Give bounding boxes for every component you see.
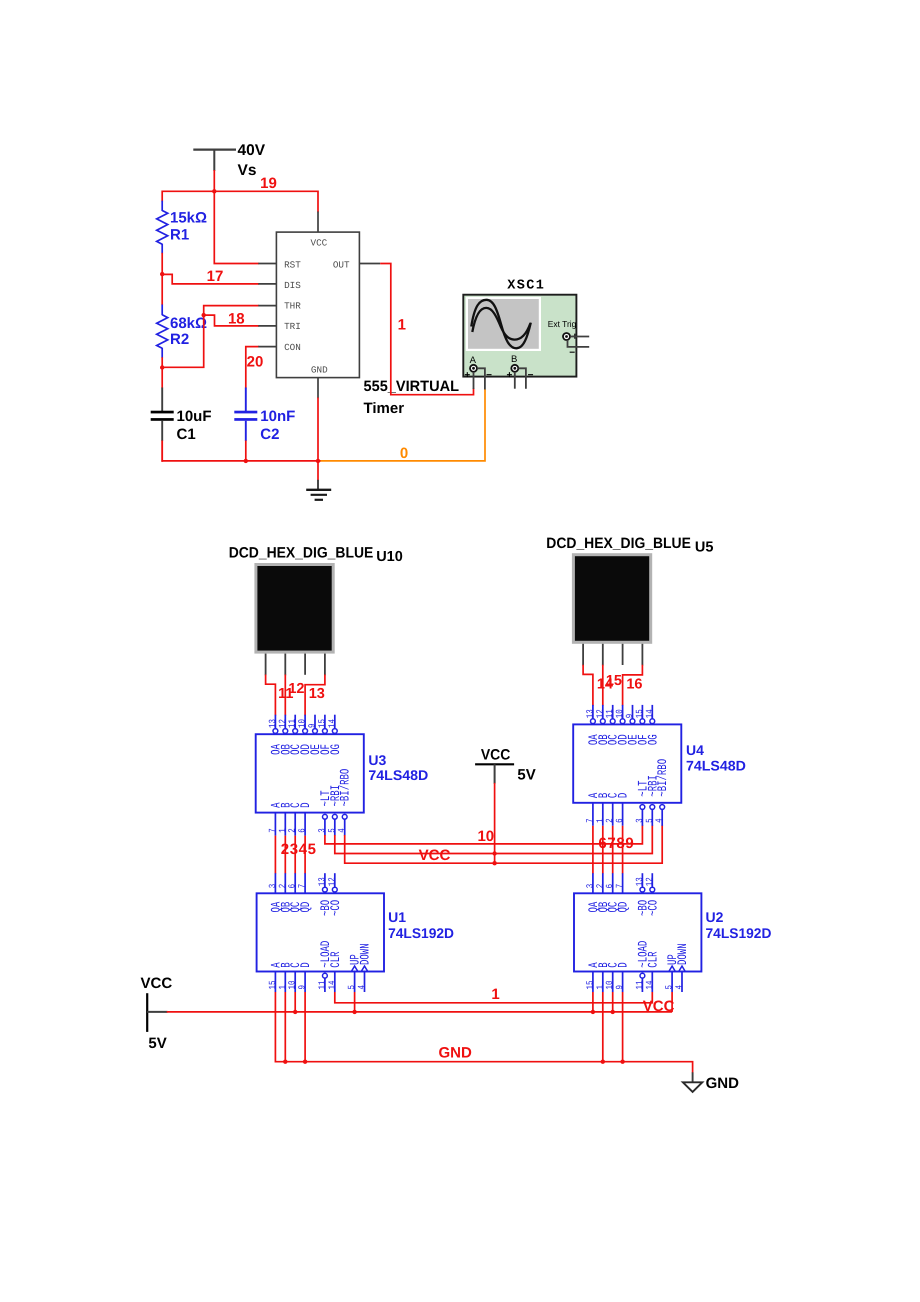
U4 bottom pin 4 ~BI/RBO xyxy=(660,805,665,810)
svg-text:9: 9 xyxy=(297,985,308,990)
svg-text:Timer: Timer xyxy=(364,400,405,417)
wire U2 A to VCC rail xyxy=(592,992,594,1012)
U4 bottom pin 2 C xyxy=(612,803,614,826)
svg-text:10: 10 xyxy=(477,828,494,845)
svg-text:19: 19 xyxy=(260,175,277,192)
svg-text:3: 3 xyxy=(585,883,596,888)
U3 top pin 10 OD xyxy=(304,715,306,729)
svg-text:DOWN: DOWN xyxy=(358,943,373,965)
U1 bottom pin 1 B xyxy=(284,972,286,993)
wire net 1 clock line (U1 CLR to U2 CLR) xyxy=(335,992,653,1003)
svg-text:10: 10 xyxy=(605,980,616,990)
svg-text:13: 13 xyxy=(634,877,645,887)
junction node on net 19 xyxy=(212,189,216,193)
U2 bottom pin 1 B xyxy=(602,972,604,993)
wire net 14 (U5 pin1 to U4 OA) xyxy=(583,665,593,706)
svg-text:12: 12 xyxy=(644,877,655,886)
U4 bottom pin 7 A xyxy=(592,803,594,826)
svg-text:6: 6 xyxy=(598,835,606,852)
svg-text:2: 2 xyxy=(281,841,289,858)
junction node VCC/~RBI line xyxy=(492,851,496,855)
svg-text:0: 0 xyxy=(400,445,408,462)
svg-text:4: 4 xyxy=(338,828,348,833)
svg-text:11: 11 xyxy=(318,980,328,990)
wire bottom rail (GND net) xyxy=(161,460,163,462)
555 pin stub DIS xyxy=(258,283,276,285)
svg-text:3: 3 xyxy=(290,841,298,858)
junction node U2 C on VCC rail xyxy=(611,1010,615,1014)
IC U1 74LS192D box xyxy=(257,893,384,971)
U1 bottom pin 9 D xyxy=(304,972,306,993)
wire net 2 (U3 A to U1 QA) xyxy=(274,836,276,874)
U4 bottom pin 1 B xyxy=(602,803,604,826)
scope sine waveform 1 xyxy=(471,300,531,349)
svg-text:11: 11 xyxy=(636,980,646,990)
wire U1 C to VCC rail xyxy=(294,992,296,1012)
display U10 pin 4 xyxy=(324,654,326,676)
svg-text:~BI/RBO: ~BI/RBO xyxy=(339,769,354,807)
capacitor C2 10nF xyxy=(245,388,247,412)
svg-text:−: − xyxy=(528,370,534,381)
display U5 pin 3 (unconnected) xyxy=(622,644,624,665)
ground symbol (555) xyxy=(317,480,319,490)
junction node U1 B on GND rail xyxy=(283,1060,287,1064)
svg-text:−: − xyxy=(569,348,575,359)
wire net ~BI/RBO line (U3 pin4 to U4 pin4) xyxy=(345,825,663,863)
svg-text:14: 14 xyxy=(328,718,338,728)
IC U4 74LS48D box xyxy=(573,724,681,802)
svg-text:3: 3 xyxy=(317,828,328,833)
scope channel A stubs xyxy=(473,372,475,389)
svg-text:8: 8 xyxy=(616,835,624,852)
svg-text:6: 6 xyxy=(605,883,616,888)
U3 bottom pin 5 ~RBI xyxy=(332,814,337,819)
op-amp-style 555 timer U (555_VIRTUAL) xyxy=(276,232,359,378)
IC U3 74LS48D box xyxy=(256,734,364,812)
svg-text:7: 7 xyxy=(298,884,308,889)
svg-text:6: 6 xyxy=(615,818,626,823)
svg-text:U10: U10 xyxy=(376,549,403,565)
svg-text:~CO: ~CO xyxy=(329,900,344,916)
U3 bottom pin 7 A xyxy=(274,813,276,836)
U4 top pin 10 OD xyxy=(622,705,624,719)
svg-text:C2: C2 xyxy=(260,426,279,443)
svg-text:7: 7 xyxy=(269,828,279,833)
display U5 pin 1 xyxy=(582,644,584,666)
junction node U2 B on GND rail xyxy=(601,1060,605,1064)
U3 top pin 13 OA xyxy=(274,715,276,729)
svg-text:CON: CON xyxy=(284,342,301,353)
U3 bottom pin 1 B xyxy=(284,813,286,836)
svg-text:5V: 5V xyxy=(148,1035,166,1052)
wire GND rail (bottom) xyxy=(275,992,692,1073)
scope channel B stubs xyxy=(514,372,516,389)
svg-text:17: 17 xyxy=(207,268,224,285)
junction node VCC/~BI line xyxy=(492,861,496,865)
wire U2 D to GND rail xyxy=(622,992,624,1062)
wire R1 bottom to node xyxy=(161,253,163,275)
555 pin stub RST xyxy=(258,263,276,265)
svg-text:VCC: VCC xyxy=(311,238,328,249)
svg-text:1: 1 xyxy=(596,818,606,823)
wire U1 B to GND rail xyxy=(284,992,286,1062)
svg-text:3: 3 xyxy=(267,883,278,888)
svg-text:D: D xyxy=(616,793,631,798)
svg-text:555_VIRTUAL: 555_VIRTUAL xyxy=(364,378,460,395)
svg-text:18: 18 xyxy=(228,311,245,328)
wire U2 B to GND rail xyxy=(602,992,604,1062)
svg-text:1: 1 xyxy=(491,986,499,1003)
svg-text:1: 1 xyxy=(596,985,606,990)
svg-text:+: + xyxy=(506,370,512,381)
svg-text:15: 15 xyxy=(636,709,646,719)
U1 top pin 2 QB xyxy=(284,873,286,893)
U4 top pin 12 OB xyxy=(602,705,604,719)
wire net 6 (U4 A to U2 QA) xyxy=(592,826,594,874)
svg-text:RST: RST xyxy=(284,260,301,271)
svg-text:U2: U2 xyxy=(706,909,724,925)
junction node U1 C on VCC rail xyxy=(293,1010,297,1014)
U2 bottom pin 5 UP (clock) xyxy=(669,966,676,971)
svg-text:15: 15 xyxy=(269,980,279,990)
wire net 18 (THR/TRI to R2 bottom) xyxy=(162,306,259,368)
U2 top pin 3 QA xyxy=(592,873,594,893)
junction node on net 18 xyxy=(202,313,206,317)
svg-text:5: 5 xyxy=(308,841,316,858)
U4 bottom pin 3 ~LT xyxy=(640,805,645,810)
svg-text:4: 4 xyxy=(299,841,308,858)
svg-text:2: 2 xyxy=(287,828,298,833)
svg-text:5: 5 xyxy=(348,985,358,990)
svg-text:13: 13 xyxy=(309,686,325,702)
svg-text:15: 15 xyxy=(586,980,596,990)
svg-text:B: B xyxy=(511,354,517,365)
svg-text:15kΩ: 15kΩ xyxy=(170,210,207,227)
display U10 pin 2 xyxy=(284,654,286,676)
U1 top pin 13 ~BO xyxy=(324,873,326,887)
svg-text:OG: OG xyxy=(329,744,344,755)
U3 bottom pin 3 ~LT xyxy=(323,814,328,819)
svg-text:1: 1 xyxy=(279,985,289,990)
svg-text:D: D xyxy=(299,802,314,807)
svg-text:2: 2 xyxy=(605,818,616,823)
U2 top pin 13 ~BO xyxy=(641,873,643,887)
svg-text:14: 14 xyxy=(328,980,338,990)
svg-text:11: 11 xyxy=(606,709,616,719)
svg-text:GND: GND xyxy=(706,1075,740,1092)
wire U1 UP to VCC rail xyxy=(354,992,356,1012)
svg-text:10nF: 10nF xyxy=(260,408,295,425)
wire net 4 (U3 C to U1 QC) xyxy=(294,836,296,874)
U2 bottom pin 14 CLR xyxy=(651,972,653,993)
svg-text:12: 12 xyxy=(595,709,606,718)
svg-text:1: 1 xyxy=(279,828,289,833)
svg-text:QD: QD xyxy=(299,902,314,913)
svg-text:7: 7 xyxy=(586,818,596,823)
wire net 20 (CON to C2) xyxy=(246,347,259,389)
svg-text:16: 16 xyxy=(626,676,642,692)
U1 top pin 7 QD xyxy=(304,873,306,893)
svg-text:DOWN: DOWN xyxy=(676,943,691,965)
junction node R2 bottom xyxy=(160,365,164,369)
svg-text:2: 2 xyxy=(595,884,606,889)
wire net 17 (node to DIS) xyxy=(162,274,259,284)
svg-text:OUT: OUT xyxy=(333,260,350,271)
svg-text:VCC: VCC xyxy=(419,847,451,864)
svg-text:~CO: ~CO xyxy=(646,900,661,916)
svg-text:68kΩ: 68kΩ xyxy=(170,315,207,332)
svg-text:~BI/RBO: ~BI/RBO xyxy=(656,759,671,797)
svg-text:12: 12 xyxy=(277,719,288,728)
U3 bottom pin 6 D xyxy=(304,813,306,836)
wire net 19 (Vs to 555 VCC) xyxy=(213,170,215,192)
555 pin stub CON xyxy=(258,346,276,348)
svg-text:CLR: CLR xyxy=(646,951,661,968)
U2 top pin 2 QB xyxy=(602,873,604,893)
wire VCC rail (bottom) xyxy=(167,1011,672,1013)
wire U2 C to VCC rail xyxy=(612,992,614,1012)
svg-text:13: 13 xyxy=(317,877,328,887)
U2 top pin 6 QC xyxy=(612,873,614,893)
svg-text:14: 14 xyxy=(646,980,656,990)
U2 bottom pin 15 A xyxy=(592,972,594,993)
svg-text:4: 4 xyxy=(358,985,368,990)
scope Ext Trig stubs xyxy=(570,336,589,338)
svg-text:12: 12 xyxy=(327,877,338,886)
display U10 pin 3 (unconnected) xyxy=(304,654,306,675)
svg-text:VCC: VCC xyxy=(141,975,173,992)
svg-text:DIS: DIS xyxy=(284,280,301,291)
wire net ~RBI line (U3 pin5 to U4 pin5) xyxy=(335,825,653,853)
U4 top pin 9 OE xyxy=(632,705,634,719)
ground symbol GND (bottom right) xyxy=(692,1072,694,1082)
scope channel A terminal xyxy=(470,365,477,372)
U1 bottom pin 10 C xyxy=(294,972,296,993)
svg-text:GND: GND xyxy=(439,1044,473,1061)
svg-text:74LS48D: 74LS48D xyxy=(368,767,428,783)
display U5 pin 4 xyxy=(641,644,643,666)
svg-text:D: D xyxy=(616,962,631,967)
U2 bottom pin 9 D xyxy=(622,972,624,993)
svg-text:10: 10 xyxy=(615,709,626,719)
U1 top pin 6 QC xyxy=(294,873,296,893)
svg-text:7: 7 xyxy=(607,835,615,852)
svg-text:QD: QD xyxy=(616,902,631,913)
555 pin stub OUT xyxy=(359,263,380,265)
svg-text:10: 10 xyxy=(287,980,298,990)
svg-text:74LS192D: 74LS192D xyxy=(706,925,772,941)
555 pin stub THR xyxy=(258,305,276,307)
wire net 3 (U3 B to U1 QB) xyxy=(284,836,286,874)
svg-text:5V: 5V xyxy=(517,767,535,784)
junction node U1 D on GND rail xyxy=(303,1060,307,1064)
wire U1 D to GND rail xyxy=(304,992,306,1062)
U2 top pin 7 QD xyxy=(622,873,624,893)
U1 top pin 12 ~CO xyxy=(334,873,336,887)
wire net 7 (U4 B to U2 QB) xyxy=(602,826,604,874)
U2 top pin 12 ~CO xyxy=(651,873,653,887)
wire net 11 (U10 pin1 to U3 OA) xyxy=(266,675,276,716)
wire net 12 (U10 pin2 to U3 OB) xyxy=(284,675,286,716)
wire RST to net 19 xyxy=(214,191,259,263)
svg-text:4: 4 xyxy=(675,985,685,990)
svg-text:13: 13 xyxy=(585,709,596,719)
svg-text:C1: C1 xyxy=(177,426,196,443)
svg-text:9: 9 xyxy=(625,714,636,719)
svg-text:6: 6 xyxy=(297,828,308,833)
IC U2 74LS192D box xyxy=(574,893,701,971)
scope Ext Trig terminal xyxy=(563,333,570,340)
wire net 10 (VCC to lines) xyxy=(494,783,496,863)
U1 bottom pin 4 DOWN (clock) xyxy=(361,966,368,971)
svg-text:10uF: 10uF xyxy=(177,408,212,425)
svg-text:11: 11 xyxy=(288,718,298,728)
wire 555 GND pin to rail and ground xyxy=(317,398,319,462)
svg-text:5: 5 xyxy=(646,818,656,823)
svg-text:9: 9 xyxy=(625,835,633,852)
svg-text:10: 10 xyxy=(297,718,308,728)
scope channel B terminal xyxy=(511,365,518,372)
U3 top pin 14 OG xyxy=(334,715,336,729)
wire net 13 (U10 pin4 to U3 OD) xyxy=(305,675,325,716)
wire net 1 (OUT to scope A+) xyxy=(380,264,473,395)
U3 top pin 12 OB xyxy=(284,715,286,729)
svg-text:15: 15 xyxy=(318,718,328,728)
wire net ~LT line (U3 pin3 to U4 pin3) xyxy=(325,825,643,844)
wire net 16 (U5 pin4 to U4 OD) xyxy=(623,665,643,706)
U1 bottom pin 14 CLR xyxy=(334,972,336,993)
svg-text:20: 20 xyxy=(247,354,264,371)
svg-text:OG: OG xyxy=(646,734,661,745)
junction node U2 A on VCC rail xyxy=(591,1010,595,1014)
U1 bottom pin 15 A xyxy=(274,972,276,993)
junction node C2 on rail xyxy=(244,459,248,463)
svg-text:1: 1 xyxy=(398,316,406,333)
svg-text:Ext Trig: Ext Trig xyxy=(548,319,577,329)
junction node R1/R2/net17 xyxy=(160,272,164,276)
svg-text:+: + xyxy=(464,370,470,381)
svg-text:D: D xyxy=(299,962,314,967)
svg-text:U4: U4 xyxy=(686,742,704,758)
U3 bottom pin 4 ~BI/RBO xyxy=(342,814,347,819)
svg-text:9: 9 xyxy=(615,985,626,990)
wire net 15 (U5 pin2 to U4 OB) xyxy=(602,665,604,706)
555 pin stub TRI xyxy=(258,325,276,327)
svg-text:XSC1: XSC1 xyxy=(507,279,545,294)
svg-text:THR: THR xyxy=(284,301,301,312)
svg-text:2: 2 xyxy=(277,884,288,889)
U4 top pin 15 OF xyxy=(641,705,643,719)
scope screen xyxy=(467,298,540,350)
U4 bottom pin 6 D xyxy=(622,803,624,826)
U4 top pin 13 OA xyxy=(592,705,594,719)
svg-text:CLR: CLR xyxy=(329,951,344,968)
555 pin stub GND xyxy=(317,378,319,399)
svg-text:Vs: Vs xyxy=(238,162,257,179)
wire net 5 (U3 D to U1 QD) xyxy=(304,836,306,874)
svg-text:6: 6 xyxy=(287,883,298,888)
U4 top pin 14 OG xyxy=(651,705,653,719)
wire net 9 (U4 D to U2 QD) xyxy=(622,826,624,874)
U2 bottom pin 4 DOWN (clock) xyxy=(679,966,686,971)
junction node 555 GND on rail xyxy=(316,459,320,463)
wire net 8 (U4 C to U2 QC) xyxy=(612,826,614,874)
svg-text:VCC: VCC xyxy=(481,747,511,764)
svg-text:TRI: TRI xyxy=(284,321,301,332)
svg-text:4: 4 xyxy=(655,818,665,823)
wire net 0 (rail to scope A-) xyxy=(321,389,486,461)
U3 bottom pin 2 C xyxy=(294,813,296,836)
svg-text:DCD_HEX_DIG_BLUE: DCD_HEX_DIG_BLUE xyxy=(546,535,691,552)
U1 top pin 3 QA xyxy=(274,873,276,893)
svg-text:R2: R2 xyxy=(170,331,189,348)
svg-text:5: 5 xyxy=(328,828,338,833)
svg-text:VCC: VCC xyxy=(643,998,675,1015)
svg-text:U5: U5 xyxy=(695,539,714,555)
svg-text:5: 5 xyxy=(665,985,675,990)
resistor R2 68kOhm xyxy=(161,274,163,306)
capacitor C1 10uF xyxy=(161,367,163,389)
svg-text:7: 7 xyxy=(616,884,626,889)
svg-text:3: 3 xyxy=(634,818,645,823)
svg-text:40V: 40V xyxy=(238,142,266,159)
svg-text:15: 15 xyxy=(606,673,622,689)
svg-text:9: 9 xyxy=(307,723,318,728)
svg-text:74LS192D: 74LS192D xyxy=(388,925,454,941)
U4 top pin 11 OC xyxy=(612,705,614,719)
U3 top pin 9 OE xyxy=(314,715,316,729)
U2 bottom pin 11 ~LOAD xyxy=(640,973,645,978)
U2 bottom pin 10 C xyxy=(612,972,614,993)
U4 bottom pin 5 ~RBI xyxy=(650,805,655,810)
scope sine waveform 2 xyxy=(472,308,530,340)
svg-text:12: 12 xyxy=(288,681,304,697)
svg-text:14: 14 xyxy=(646,709,656,719)
555 pin stub VCC xyxy=(317,212,319,233)
svg-text:GND: GND xyxy=(311,364,328,375)
svg-text:−: − xyxy=(486,370,492,381)
resistor R1 15kOhm xyxy=(161,201,163,211)
U1 bottom pin 5 UP (clock) xyxy=(351,966,358,971)
svg-text:13: 13 xyxy=(267,718,278,728)
svg-text:74LS48D: 74LS48D xyxy=(686,757,746,773)
junction node U1 UP on VCC rail xyxy=(352,1010,356,1014)
U3 top pin 11 OC xyxy=(294,715,296,729)
U3 top pin 15 OF xyxy=(324,715,326,729)
svg-text:R1: R1 xyxy=(170,227,189,244)
display U10 pin 1 xyxy=(265,654,267,676)
svg-text:DCD_HEX_DIG_BLUE: DCD_HEX_DIG_BLUE xyxy=(229,545,374,562)
power supply Vs 40V xyxy=(193,149,236,151)
svg-text:U1: U1 xyxy=(388,909,406,925)
svg-text:U3: U3 xyxy=(368,752,386,768)
display U5 pin 2 xyxy=(602,644,604,666)
junction node U2 D on GND rail xyxy=(620,1060,624,1064)
U1 bottom pin 11 ~LOAD xyxy=(323,973,328,978)
